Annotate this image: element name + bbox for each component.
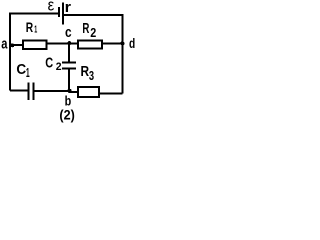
svg-text:R: R <box>26 19 33 35</box>
svg-text:r: r <box>65 0 72 16</box>
svg-text:ε: ε <box>48 0 55 14</box>
svg-text:1: 1 <box>26 65 30 80</box>
svg-text:d: d <box>129 35 135 51</box>
svg-text:1: 1 <box>34 23 37 35</box>
svg-text:a: a <box>1 36 8 52</box>
svg-text:2: 2 <box>56 61 62 73</box>
svg-text:2: 2 <box>90 25 96 40</box>
svg-text:3: 3 <box>89 68 94 83</box>
svg-text:(2): (2) <box>59 108 74 123</box>
svg-text:C: C <box>45 55 53 71</box>
svg-text:C: C <box>16 62 26 78</box>
svg-text:c: c <box>65 24 72 41</box>
svg-text:R: R <box>82 21 89 37</box>
